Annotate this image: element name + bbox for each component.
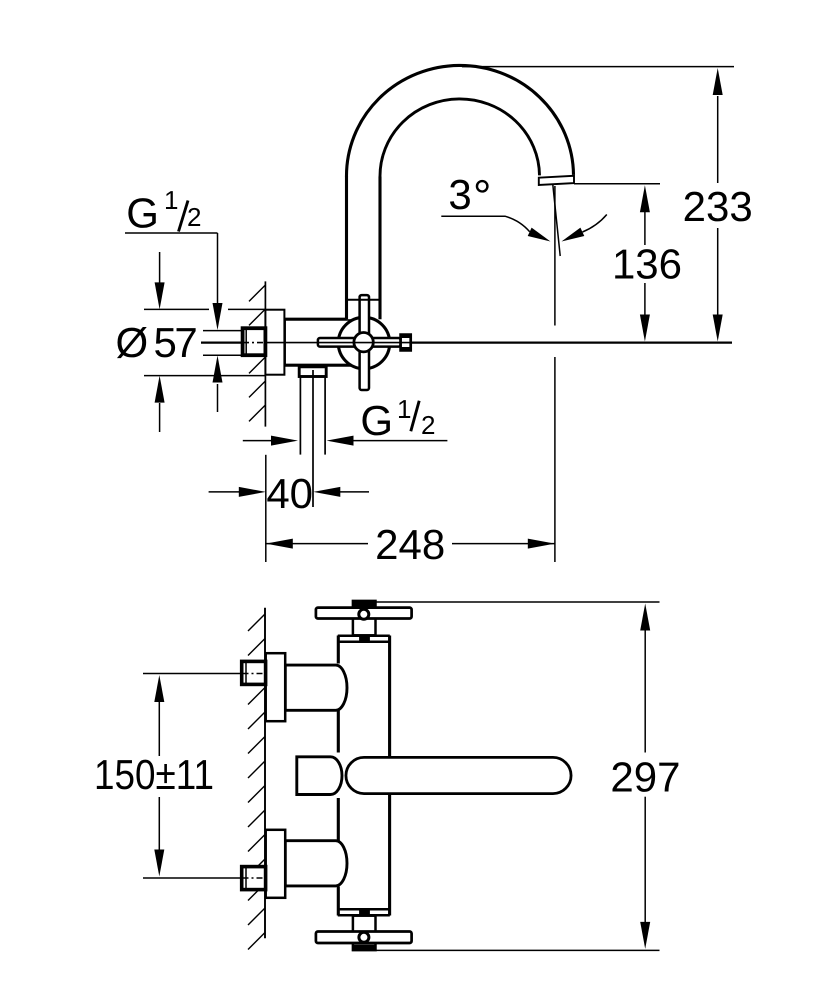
threaded wall nipple (side view) <box>243 328 266 355</box>
shower outlet tube (side view) <box>299 377 301 455</box>
slash of G 1/2 bottom <box>411 401 419 432</box>
svg-text:297: 297 <box>610 753 680 800</box>
long horizontal centre line of faucet body <box>201 342 732 344</box>
handle cross circle (side view) <box>338 317 389 368</box>
wall extension line for 40/248 <box>265 455 267 562</box>
svg-text:1: 1 <box>397 394 411 424</box>
handle arm end collar (side view) <box>401 335 411 351</box>
spout (plan view) <box>346 757 571 793</box>
lower handle screw ring <box>359 932 369 942</box>
bottom bonnet lines <box>338 908 390 911</box>
upper union nut (plan view) <box>242 661 266 684</box>
svg-text:136: 136 <box>612 240 682 287</box>
svg-text:G: G <box>360 397 393 444</box>
svg-text:Ø: Ø <box>116 319 149 366</box>
dimension 136 vertical line <box>644 212 646 245</box>
lower inlet union centre line <box>143 877 266 879</box>
wall hatching (side view) <box>249 285 265 421</box>
G 1/2 bottom dimension line (y=440.6) <box>243 440 272 442</box>
dash-dot centre in upper nut <box>243 673 266 675</box>
handle hub circle (side view) <box>354 333 373 352</box>
wall line (plan view) <box>264 608 266 938</box>
faucet body (plan view) right edge <box>388 636 391 916</box>
faucet body (plan view) left edge <box>337 636 340 916</box>
slash of G 1/2 top <box>179 201 189 232</box>
upper handle bar (plan view) <box>316 608 412 619</box>
shower outlet flange (side view) <box>299 367 326 377</box>
handle horizontal arm (side view) <box>318 338 401 347</box>
escutcheon plate (side view) <box>265 310 284 375</box>
handle vertical arm (side view) <box>360 295 369 390</box>
svg-text:1: 1 <box>164 185 178 215</box>
spout riser tube (side view) <box>347 179 381 320</box>
shower outlet (plan view) <box>297 757 342 795</box>
svg-text:3: 3 <box>448 171 471 218</box>
lower handle hub (plan view) <box>353 916 376 950</box>
dimension 248 line (y=543.6) <box>265 543 368 545</box>
dimension 233 vertical line <box>717 96 719 183</box>
297 bottom reference line <box>352 949 660 951</box>
dash-dot centre in lower nut <box>243 877 266 879</box>
shower outlet axis line <box>312 370 314 507</box>
spout nozzle band <box>539 176 574 185</box>
wall hatching (plan view) <box>248 614 265 950</box>
spout vertical axis / extension line <box>554 186 556 326</box>
wall line (side view) <box>264 281 266 426</box>
dimension 150±11 vertical line <box>158 700 160 756</box>
297 top reference line <box>376 601 660 603</box>
svg-text:57: 57 <box>154 319 197 366</box>
upper inlet union centre line <box>143 673 266 675</box>
svg-text:150±11: 150±11 <box>94 751 214 798</box>
upper handle screw ring <box>359 609 369 619</box>
136 top reference line <box>574 183 660 185</box>
lower escutcheon (plan view) <box>266 830 286 898</box>
svg-text:233: 233 <box>683 183 753 230</box>
riser tube joint line <box>347 299 381 301</box>
dia 57 arrows <box>159 252 161 283</box>
top reference line (233) <box>462 66 734 68</box>
svg-text:°: ° <box>473 170 491 222</box>
lower S-union body (plan view) <box>285 841 347 886</box>
centre line across body and handle <box>265 342 412 344</box>
nipple edge extension lines <box>203 330 243 332</box>
svg-text:2: 2 <box>421 410 435 440</box>
svg-text:2: 2 <box>187 202 201 232</box>
dimension 40 line (y=491.9) <box>209 491 240 493</box>
spout inner arc <box>380 99 540 177</box>
upper handle hub (plan view) <box>353 601 376 635</box>
upper escutcheon (plan view) <box>266 653 286 721</box>
lower union nut (plan view) <box>242 867 266 890</box>
3-degree leader and arc arrows <box>441 216 529 232</box>
centre line dash-dot through nipple <box>243 342 265 344</box>
top bonnet lines <box>338 634 390 637</box>
spout outer arc <box>346 65 573 177</box>
lower handle bar (plan view) <box>316 932 412 944</box>
3-degree tilted axis line <box>553 185 560 257</box>
svg-text:40: 40 <box>266 470 313 517</box>
dia 57 reference lines <box>144 308 209 310</box>
svg-text:248: 248 <box>375 521 445 568</box>
upper S-union body (plan view) <box>285 665 347 710</box>
G 1/2 top label leader <box>125 232 218 234</box>
valve body (side view) <box>284 319 354 365</box>
dimension 297 vertical line <box>644 629 646 753</box>
svg-text:G: G <box>126 190 159 237</box>
